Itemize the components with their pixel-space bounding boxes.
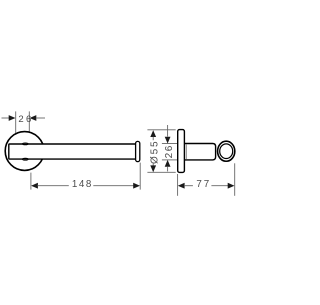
dim 148: left extension line xyxy=(30,173,32,190)
extension line plate bottom xyxy=(147,171,175,173)
dim 77: right arrow xyxy=(228,183,235,189)
arm (side) xyxy=(184,144,215,160)
dim 148: line right segment xyxy=(93,185,133,187)
extension line plate top xyxy=(147,129,175,131)
dim 26 top: left tail xyxy=(2,117,10,119)
dim 26 top: left arrow xyxy=(9,115,16,121)
dim 26 side: bottom arrow (up) xyxy=(165,160,171,167)
ring inner xyxy=(220,144,233,159)
dim 26 top: right arrow xyxy=(30,115,37,121)
extension line right of dim 26 xyxy=(28,111,30,132)
dim 26 side: bottom tail xyxy=(167,166,169,171)
dim 77: left extension line xyxy=(177,174,179,196)
dim 26 side: top arrow (down) xyxy=(165,137,171,144)
dim 77: left arrow xyxy=(178,183,185,189)
dim O55: top arrow (up) xyxy=(150,130,156,137)
extension line left of dim 26 xyxy=(15,111,17,133)
svg-text:148: 148 xyxy=(72,179,93,190)
dim O55: bottom arrow (down) xyxy=(150,165,156,172)
dim 148: line left segment xyxy=(37,185,68,187)
extension line arm bottom xyxy=(162,159,178,161)
dim O55: line top segment xyxy=(152,137,154,141)
bar (roll holder tube) xyxy=(9,144,137,159)
dim 77: line left segment xyxy=(184,185,193,187)
post tangent ellipse top xyxy=(22,143,28,145)
ring outer xyxy=(218,141,235,161)
extension line arm top xyxy=(162,143,178,145)
svg-text:77: 77 xyxy=(196,179,211,190)
dim 148: right arrow xyxy=(133,183,140,189)
post tangent ellipse bottom xyxy=(22,158,28,160)
svg-text:26: 26 xyxy=(18,114,33,125)
svg-text:Ø55: Ø55 xyxy=(149,140,160,164)
dim 77: line right segment xyxy=(211,185,228,187)
rosette circle xyxy=(5,132,44,171)
neck line xyxy=(185,144,187,159)
wall plate (rosette side) xyxy=(178,130,185,173)
dim 26 side: top tail xyxy=(167,125,169,137)
dim 148: right extension line xyxy=(139,163,141,190)
dim 26 top: right tail xyxy=(36,117,45,119)
end cap xyxy=(136,141,140,161)
dim 77: right extension line xyxy=(234,163,236,196)
dim 148: left arrow xyxy=(31,183,38,189)
svg-text:26: 26 xyxy=(164,144,175,158)
dim O55: line bottom segment xyxy=(152,163,154,165)
